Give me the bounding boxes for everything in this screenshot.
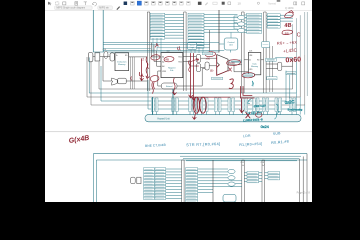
red circled WriteDataM <box>242 72 255 78</box>
lasso icon <box>56 2 59 5</box>
wire bundle: writeback signals <box>244 15 293 33</box>
mux: MemtoReg result mux <box>278 62 282 70</box>
shape icon <box>63 2 66 5</box>
red arrow down hazard <box>240 99 244 113</box>
svg-text:Page 2 of 8: Page 2 of 8 <box>297 191 311 195</box>
register: CondE flags box <box>262 42 270 48</box>
gate: PCSrc AND gate 1 <box>238 15 245 19</box>
svg-text:Q 100%: Q 100% <box>285 7 295 10</box>
mux: instr mux <box>110 53 114 61</box>
svg-text:C: C <box>297 32 301 38</box>
svg-text:SUB: SUB <box>273 131 282 136</box>
signal label column (Memory stage) <box>247 13 262 33</box>
svg-text:0x60: 0x60 <box>285 56 301 64</box>
svg-text:12: 12 <box>140 57 144 61</box>
pipeline register bar D/E <box>184 12 187 91</box>
svg-text:Register: Register <box>168 67 176 70</box>
wire bundle: control signals execute->memory <box>204 15 219 33</box>
red forward vertical 1 <box>189 53 193 97</box>
label box: ReadDataW <box>267 77 277 80</box>
label box: ResultW <box>266 58 277 61</box>
label box: WriteDataM <box>243 74 254 77</box>
svg-text:60: 60 <box>196 64 200 68</box>
wire bundle: decode stage wires <box>103 43 224 86</box>
pipeline register bar F/D <box>147 12 150 91</box>
wire: fetch extra hline <box>103 48 151 50</box>
pen swatch row <box>124 1 191 5</box>
wire: colA control drops <box>153 38 161 53</box>
svg-text:Unit: Unit <box>229 44 233 47</box>
pipeline register bar E/M <box>242 12 245 93</box>
signal label column (Execute stage) <box>188 13 204 48</box>
wire bundle: control signals decode->execute <box>165 15 184 39</box>
wire: instruction field to control unit <box>218 10 220 53</box>
teal brace <box>275 104 280 119</box>
signal label column (Decode stage) <box>150 13 165 39</box>
red wavy left of regfile <box>146 57 149 78</box>
register: fig2 small boxes <box>131 177 141 183</box>
wire loop: forward loop B <box>91 55 305 105</box>
wire bundle: fetch stage wires <box>93 57 147 81</box>
red corner retrace hazard <box>240 86 254 98</box>
red circ srcA <box>205 51 216 57</box>
label boxes: hazard unit inputs (vertical) <box>151 98 295 111</box>
adder: PC+4 oval <box>104 51 108 58</box>
ruler icon <box>213 2 217 4</box>
red mark RD1 <box>178 47 181 50</box>
signal label column (Writeback stage) <box>267 14 280 28</box>
svg-text:Control: Control <box>228 41 235 44</box>
svg-text:B-addressing: B-addressing <box>288 109 303 112</box>
signal label column fig2 (A) <box>144 168 155 200</box>
wire loop: stall loop <box>148 75 290 109</box>
svg-text:Hazard Unit: Hazard Unit <box>157 117 169 120</box>
memory: instruction memory <box>115 53 129 71</box>
svg-text:10: 10 <box>238 2 242 6</box>
svg-text:Memory: Memory <box>251 65 258 68</box>
annotation group: red pen <box>131 11 302 120</box>
sign extend unit <box>161 83 177 89</box>
red X over wire <box>246 112 250 118</box>
svg-text:4B: 4B <box>284 23 292 29</box>
swatch nib marks <box>131 2 189 3</box>
cursor tool icon <box>48 2 52 6</box>
wire loop: PCSrc loop <box>89 57 296 93</box>
svg-text:LDR: LDR <box>243 134 251 139</box>
wire bundle: execute stage wires <box>177 57 248 86</box>
svg-text:WD3: WD3 <box>162 71 166 73</box>
red squiggle near instr mem <box>146 62 148 68</box>
select icon <box>228 2 231 5</box>
svg-text:+2 1111 1111: +2 1111 1111 <box>247 110 263 115</box>
shapes icon <box>222 2 225 5</box>
svg-text:0x2C: 0x2C <box>284 99 294 105</box>
page separator line <box>45 131 312 132</box>
red circle near hazard <box>256 112 262 117</box>
pipeline register bar fig2 M/W <box>262 160 265 202</box>
register: PCPlus4F <box>118 78 126 84</box>
text tool icon <box>84 2 87 5</box>
red mu mark <box>139 72 143 76</box>
wire: fig2 instr vertical <box>212 160 214 202</box>
register: PC <box>95 53 100 61</box>
wire bundle: memory stage signals <box>219 15 242 33</box>
label box: ALUOutM <box>230 60 242 63</box>
wire: fig2 clk triangles <box>242 165 265 166</box>
svg-text:MIPS Single cycle diagram: MIPS Single cycle diagram <box>57 7 86 10</box>
red numeral 3 <box>229 79 233 89</box>
wire: control to AND gates <box>231 16 247 38</box>
undo icon <box>93 2 97 6</box>
op-amp: none / control unit U1 <box>224 38 238 50</box>
gate: PCSrc AND gate 3 <box>238 28 245 32</box>
gate: PCSrc AND gate 2 <box>238 22 245 26</box>
red squiggle mux inputs <box>189 60 191 71</box>
wire: instr cond field <box>209 30 211 53</box>
tab pill: MIPS Single cycle diagram <box>55 6 93 10</box>
signal label column fig2 (B) <box>155 168 166 200</box>
red circled A1 <box>150 54 160 60</box>
wire: control unit drop <box>219 44 231 53</box>
figure 2: second schematic page <box>93 154 307 203</box>
red arrow to mux <box>190 59 198 62</box>
red circled 4B regfile <box>164 56 174 62</box>
svg-text:Normal: Normal <box>268 3 276 6</box>
toolbar <box>48 2 96 6</box>
wire bundle: memory/writeback wires <box>261 58 293 69</box>
pipeline register bar fig2 D/E <box>182 160 185 202</box>
svg-text:RD2: RD2 <box>178 61 182 63</box>
red oval over ForwardAE <box>193 97 199 113</box>
wire: figure left frame line 2 <box>102 10 104 52</box>
hazard unit <box>145 115 301 122</box>
pipeline register bar M/W <box>264 12 267 93</box>
highlighter icon <box>205 2 208 5</box>
eraser icon <box>198 2 202 5</box>
wire: decode extra hline <box>157 47 210 49</box>
red wavy below PCSrcD <box>152 82 155 93</box>
wire: figure left frame line 1 <box>92 10 94 52</box>
wire: writeback vertical pair <box>270 46 273 92</box>
wire: hazard unit stubs <box>153 112 292 115</box>
label box: ALUOutW <box>286 72 296 75</box>
teal mark below data memory <box>252 81 254 87</box>
red oval over ForwardBE <box>200 97 206 113</box>
svg-text:A2: A2 <box>162 60 164 63</box>
adder: PCPlus4 <box>112 78 118 85</box>
figure 1: pipelined processor schematic <box>87 10 305 122</box>
register file <box>161 51 183 78</box>
red arrow below ovals <box>193 114 197 120</box>
signal label column fig2 (D) <box>247 172 259 183</box>
toolbar bottom border <box>45 9 312 11</box>
memory: data memory <box>248 52 260 74</box>
svg-text:4B: 4B <box>165 57 169 61</box>
wire: fig2 right frame verticals <box>299 154 307 202</box>
signal label column fig2 (E) <box>268 172 280 180</box>
wire: fig1 right edge line <box>306 12 308 96</box>
annotation group: teal pen <box>243 99 303 129</box>
gate: fig2 AND 1 <box>228 169 235 173</box>
svg-text:Instruction: Instruction <box>117 60 126 63</box>
label: fig2 CLK marks <box>241 162 265 164</box>
wire bundle: fig2 top wires <box>180 156 301 161</box>
pipeline register bar fig2 E/M <box>242 160 245 202</box>
wire bundle: fig2 decode signals <box>166 169 182 199</box>
small dot icon <box>257 2 259 4</box>
red tick above regfile <box>155 43 158 47</box>
mux: SrcA forward mux <box>196 54 200 62</box>
svg-text:RD1: RD1 <box>178 57 182 59</box>
svg-text:Logic: Logic <box>190 47 195 49</box>
wire: instr field vertical drops <box>130 57 134 89</box>
wire bundle: fig2 execute signals <box>198 169 213 193</box>
cond logic unit <box>187 43 197 50</box>
svg-text:B5: B5 <box>285 32 289 36</box>
wire: right hazard drops <box>296 93 304 115</box>
wire: control drop lines <box>191 47 203 53</box>
red ALU retrace <box>217 55 228 75</box>
mux: SrcB forward mux <box>196 64 200 72</box>
label box: SrcAE <box>202 52 212 55</box>
mux: ALUSrc mux <box>205 62 209 70</box>
wire: fig2 left frame verticals <box>93 154 96 202</box>
wire: fig2 top frame <box>93 153 307 155</box>
wire loop: forward loop A <box>101 66 286 101</box>
app window <box>45 0 312 202</box>
svg-text:A3: A3 <box>162 65 164 68</box>
svg-text:MIPS sin: MIPS sin <box>99 7 109 10</box>
gate: fig2 AND 2 <box>228 176 235 180</box>
wire: right edge verticals <box>293 12 305 60</box>
red circled B5 <box>282 30 293 34</box>
control unit fig2 <box>223 195 236 203</box>
wire loop: result writeback loop <box>99 62 293 89</box>
red horizontal at loops <box>191 96 230 98</box>
wire bundle: fig2 memory signals <box>213 169 242 187</box>
gate: fig2 AND 3 <box>228 182 235 186</box>
red circled scribble top <box>285 11 294 18</box>
signal label column fig2 (C) <box>186 168 198 203</box>
red vertical PC wire retrace <box>140 59 143 81</box>
red circled PCSrcD <box>150 75 160 82</box>
pen tool icon <box>116 6 120 10</box>
svg-text:Extend: Extend <box>166 85 172 88</box>
svg-text:Memory: Memory <box>118 64 125 66</box>
red wavy stall mark <box>173 78 177 95</box>
red circled ALUOut <box>226 59 240 66</box>
wire loop: branch target loop <box>87 57 300 97</box>
annotation group: blue instructions <box>145 131 289 148</box>
red tick adder <box>130 77 133 81</box>
grid view icon <box>294 2 305 5</box>
svg-text:x60: x60 <box>206 57 211 61</box>
wire: hazard thick drops <box>153 89 174 115</box>
ALU <box>217 55 228 76</box>
wire bundle: fig2 writeback signals <box>244 173 268 182</box>
mux: PC source mux <box>88 52 93 61</box>
red forward vertical 2 <box>192 53 196 100</box>
teal arrow <box>248 99 252 104</box>
svg-text:0x24: 0x24 <box>261 125 269 129</box>
red arrow K <box>229 68 232 72</box>
window drag handle <box>277 0 281 1</box>
clipboard icon <box>75 2 78 5</box>
wire: fig2 inner frame <box>96 159 307 161</box>
label box: ALUFlags <box>212 77 223 80</box>
tab pill 2 <box>98 6 113 10</box>
svg-text:0x60: 0x60 <box>228 61 235 65</box>
wire: InstrD bus <box>93 51 219 53</box>
